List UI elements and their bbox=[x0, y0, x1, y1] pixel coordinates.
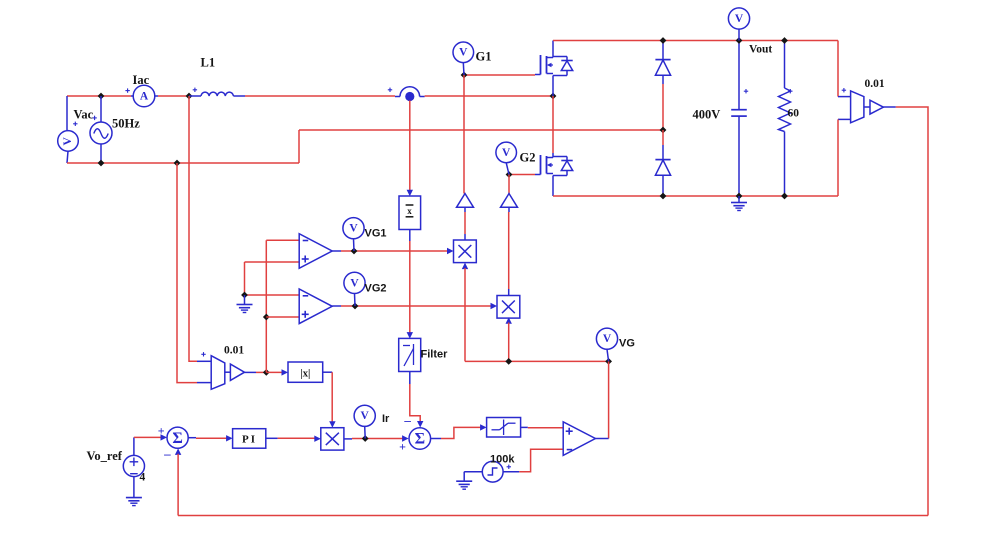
wire right rail to sensor top bbox=[837, 41, 839, 97]
arrow into M1 bottom bbox=[462, 263, 468, 270]
wire G2 gate node to mosfet gate bbox=[509, 174, 535, 176]
svg-text:V: V bbox=[459, 47, 468, 59]
label 50Hz bbox=[112, 117, 140, 131]
wire current sensor to switch node bbox=[425, 95, 553, 97]
voltmeter G1 bbox=[453, 42, 474, 63]
svg-text:0.01: 0.01 bbox=[224, 345, 244, 357]
polarity mark sensor VSEN1 bbox=[201, 352, 205, 356]
mosfet Q2 bbox=[535, 155, 573, 176]
node switch junction bbox=[550, 93, 557, 100]
label Vac bbox=[74, 108, 94, 122]
wire divider to filter bbox=[409, 241, 411, 333]
svg-text:0.01: 0.01 bbox=[865, 78, 885, 90]
wire M3 to summer2 bbox=[352, 438, 403, 440]
on-off controller T2 bbox=[501, 194, 518, 208]
wire return rail bbox=[299, 129, 663, 131]
svg-text:V: V bbox=[361, 410, 370, 422]
svg-text:VG1: VG1 bbox=[365, 228, 387, 240]
wire abs to M3 top bbox=[331, 372, 333, 421]
wire G1 vertical to controller bbox=[463, 75, 465, 194]
svg-text:PI: PI bbox=[242, 434, 257, 446]
label VG1 bbox=[365, 228, 387, 240]
wire M1 bottom to VG node bbox=[464, 268, 466, 361]
wire U2 output to multiplier bbox=[341, 305, 491, 307]
wire T1 to multiplier M1 bbox=[464, 207, 466, 240]
ac source 50Hz lead bottom bbox=[100, 144, 102, 163]
svg-text:A: A bbox=[140, 91, 149, 103]
ground opamp reference bbox=[237, 295, 253, 313]
voltmeter Vout stub bbox=[738, 29, 740, 40]
filter output lead bbox=[409, 372, 411, 385]
ground Vo_ref bbox=[126, 477, 142, 506]
svg-text:Filter: Filter bbox=[421, 349, 449, 361]
svg-text:50Hz: 50Hz bbox=[112, 117, 140, 131]
wire line sense B vertical bbox=[177, 163, 197, 383]
node opamp2 plus tap bbox=[263, 314, 270, 321]
label 0.01 output sensor bbox=[865, 78, 885, 90]
wire feedback riser bbox=[177, 454, 179, 516]
diode D2 bottom lead bbox=[662, 175, 664, 196]
arrow into summer1 left bbox=[161, 434, 168, 440]
diode leg top lead bbox=[662, 41, 664, 60]
wire bottom rail of source loop bbox=[67, 162, 299, 164]
svg-text:Σ: Σ bbox=[172, 430, 182, 447]
node junction return tap bbox=[174, 160, 181, 167]
wire line signal riser bbox=[265, 240, 267, 372]
polarity mark ammeter bbox=[125, 88, 129, 92]
wire diode midpoint upper bbox=[662, 84, 664, 130]
ammeter Iac lead left bbox=[131, 95, 134, 97]
voltage sensor VSEN1 bbox=[211, 356, 244, 390]
arrow into filter bbox=[407, 332, 413, 339]
label Filter bbox=[421, 349, 449, 361]
voltmeter VG2 bbox=[344, 272, 365, 293]
svg-text:VG: VG bbox=[619, 338, 635, 350]
arrow into abs bbox=[282, 369, 289, 375]
svg-text:Σ: Σ bbox=[415, 431, 425, 448]
wire G2 vertical to controller bbox=[508, 175, 510, 194]
svg-text:VG2: VG2 bbox=[365, 283, 387, 295]
node VG junction bbox=[605, 358, 612, 365]
voltmeter G1 stub bbox=[462, 63, 465, 75]
op-amp U1 output lead bbox=[332, 250, 341, 252]
label VG bbox=[619, 338, 635, 350]
node junction source bottom bbox=[98, 160, 105, 167]
divider block 1/x bbox=[399, 196, 421, 230]
svg-text:V: V bbox=[62, 136, 74, 145]
voltmeter VG bbox=[596, 328, 617, 349]
node Ir junction bbox=[362, 435, 369, 442]
svg-text:G1: G1 bbox=[476, 50, 492, 64]
resistor R1 lead top bbox=[784, 41, 786, 89]
polarity mark current sensor bbox=[388, 88, 392, 92]
wire to opamp2 plus bbox=[266, 316, 299, 318]
voltmeter Ir stub bbox=[364, 426, 367, 438]
capacitor C1 lead bottom bbox=[738, 116, 740, 196]
svg-text:V: V bbox=[735, 13, 744, 25]
multiplier M3 bbox=[321, 428, 344, 450]
arrow into M3 top bbox=[329, 421, 335, 428]
mosfet Q1 source lead bbox=[552, 76, 554, 97]
wire diode midpoint lower bbox=[662, 130, 664, 145]
voltage sensor VSEN2 lead top bbox=[838, 96, 851, 98]
arrow into summer1 bottom bbox=[175, 448, 181, 455]
node resistor bottom junction bbox=[781, 193, 788, 200]
svg-text:V: V bbox=[350, 277, 359, 289]
arrow into summer2 top bbox=[417, 421, 423, 428]
voltmeter Ir bbox=[354, 405, 375, 426]
multiplier M1 bbox=[454, 240, 477, 263]
ammeter Iac lead right bbox=[155, 95, 158, 97]
node cap bottom junction bbox=[736, 193, 743, 200]
svg-text:Ir: Ir bbox=[382, 413, 390, 425]
voltage sensor VSEN1 lead bottom bbox=[197, 382, 211, 384]
comparator U3 bbox=[563, 422, 595, 456]
svg-text:V: V bbox=[502, 147, 511, 159]
voltmeter Vac lead top bbox=[66, 96, 68, 131]
voltage sensor VSEN1 lead top bbox=[197, 360, 211, 362]
svg-text:V: V bbox=[603, 333, 612, 345]
wire to opamp1 plus bbox=[245, 261, 300, 263]
label 400V bbox=[693, 108, 721, 122]
op-amp U1 bbox=[299, 234, 332, 269]
ac source 50Hz bbox=[90, 122, 112, 144]
diode D1 bbox=[655, 60, 670, 76]
wire 100k to comparator minus bbox=[519, 449, 563, 471]
dc source Vo_ref lead top bbox=[133, 437, 135, 455]
node VG-M2 junction bbox=[505, 358, 512, 365]
node diode midpoint bbox=[660, 127, 667, 134]
wire feedback bottom bbox=[178, 515, 928, 517]
summer S2 plus sign bbox=[399, 439, 406, 453]
svg-text:+: + bbox=[399, 439, 406, 453]
wire VG node horizontal bbox=[465, 360, 609, 362]
M3 output lead bbox=[344, 438, 352, 440]
wire ammeter to inductor bbox=[158, 95, 189, 97]
wire bottom dc rail bbox=[553, 195, 838, 197]
summer S2 output lead bbox=[431, 438, 441, 440]
polarity mark capacitor bbox=[744, 89, 748, 93]
node line signal junction bbox=[263, 369, 270, 376]
svg-text:4: 4 bbox=[140, 472, 146, 484]
wire T2 to multiplier M2 bbox=[508, 207, 510, 295]
voltmeter VG1 stub bbox=[353, 239, 356, 251]
square source lead left bbox=[464, 471, 482, 473]
wire ground riser opamps bbox=[244, 262, 246, 295]
svg-text:–: – bbox=[163, 446, 171, 461]
node VG1 junction bbox=[351, 248, 358, 255]
node diode leg bottom bbox=[660, 193, 667, 200]
voltage sensor VSEN1 output lead bbox=[245, 371, 257, 373]
arrow into M2 left bbox=[491, 303, 498, 309]
PI output lead bbox=[266, 437, 278, 439]
wire node to abs input bbox=[266, 371, 283, 373]
inductor L1 bbox=[189, 92, 245, 96]
svg-text:G2: G2 bbox=[520, 151, 536, 165]
node resistor top junction bbox=[781, 37, 788, 44]
limiter output lead bbox=[521, 426, 528, 428]
polarity mark sensor VSEN2 bbox=[842, 88, 846, 92]
voltmeter VG stub bbox=[607, 349, 609, 361]
comparator U3 output lead bbox=[595, 438, 608, 440]
voltmeter G2 stub bbox=[506, 163, 509, 175]
wire return riser bbox=[298, 130, 300, 163]
divider output lead bbox=[409, 230, 411, 242]
svg-text:+: + bbox=[158, 423, 165, 437]
wire summer2 to limiter bbox=[441, 427, 481, 438]
capacitor C1 lead top bbox=[738, 41, 740, 110]
square-wave source 100k bbox=[482, 461, 503, 482]
wire line sense A vertical bbox=[189, 96, 197, 361]
wire sensor1 output to node bbox=[256, 371, 266, 373]
svg-text:–: – bbox=[403, 412, 411, 427]
wire current sensor down bbox=[409, 101, 411, 191]
label L1 bbox=[201, 56, 216, 70]
wire filter to summer2 bbox=[410, 384, 420, 422]
wire sensor output to right edge bbox=[896, 107, 928, 516]
wire G1 gate node to mosfet gate bbox=[464, 74, 535, 76]
mosfet Q1 drain lead bbox=[552, 41, 554, 58]
diode D2 top lead bbox=[662, 145, 664, 160]
limiter block bbox=[487, 418, 521, 438]
ground 100k bbox=[456, 472, 472, 490]
node diode leg top bbox=[660, 37, 667, 44]
voltmeter G2 bbox=[496, 142, 517, 163]
controller PI block bbox=[233, 429, 266, 449]
polarity mark resistor bbox=[788, 89, 792, 93]
current sensor ISEN1 bbox=[395, 87, 425, 101]
wire VG node to comparator output bbox=[608, 361, 610, 438]
absolute value block |x| bbox=[288, 362, 323, 382]
wire switch node to Q2 drain bbox=[552, 96, 554, 153]
summer S2 bbox=[409, 428, 431, 450]
svg-text:x: x bbox=[407, 206, 412, 216]
arrow into divider bbox=[407, 190, 413, 197]
wire top rail left (source to ammeter) bbox=[67, 95, 131, 97]
voltmeter VG1 bbox=[343, 218, 364, 239]
ammeter Iac bbox=[133, 85, 155, 107]
label 0.01 line sensor bbox=[224, 345, 244, 357]
svg-text:Vac: Vac bbox=[74, 108, 94, 122]
label VG2 bbox=[365, 283, 387, 295]
polarity mark Vac bbox=[73, 122, 77, 126]
label 60 bbox=[788, 108, 800, 120]
svg-text:Vout: Vout bbox=[749, 44, 772, 56]
svg-text:L1: L1 bbox=[201, 56, 216, 70]
node ground junction bbox=[241, 292, 248, 299]
summer S1 bbox=[167, 427, 188, 448]
summer S2 minus sign bbox=[403, 412, 411, 427]
voltage sensor VSEN2 output lead bbox=[883, 106, 895, 108]
node junction inductor left bbox=[186, 93, 193, 100]
capacitor C1 bbox=[731, 110, 747, 116]
wire summer1 to PI bbox=[196, 437, 227, 439]
label Ir bbox=[382, 413, 390, 425]
filter block bbox=[399, 338, 421, 371]
wire inductor to current sensor bbox=[245, 95, 395, 97]
on-off controller T1 bbox=[457, 194, 474, 208]
wire top dc rail bbox=[553, 40, 838, 42]
voltmeter Vout bbox=[728, 8, 749, 29]
svg-text:Vo_ref: Vo_ref bbox=[87, 449, 123, 463]
ground output bbox=[731, 196, 747, 211]
voltmeter Vac lead bottom bbox=[67, 151, 68, 163]
svg-text:V: V bbox=[349, 223, 358, 235]
wire Vo_ref to summer1 bbox=[134, 436, 161, 438]
node junction 50Hz top bbox=[98, 93, 105, 100]
resistor R1 60ohm bbox=[779, 88, 791, 132]
summer S1 plus sign bbox=[158, 423, 165, 437]
node VG2 junction bbox=[352, 303, 359, 310]
polarity mark 100k bbox=[507, 465, 511, 469]
node G1 junction bbox=[461, 72, 468, 79]
summer S1 output lead bbox=[188, 437, 196, 439]
wire U1 output to multiplier bbox=[341, 250, 448, 252]
label Iac bbox=[133, 73, 150, 87]
label G2 bbox=[520, 151, 536, 165]
mosfet Q2 source lead bbox=[552, 176, 554, 197]
abs output lead bbox=[323, 371, 333, 373]
label 100k bbox=[490, 454, 515, 466]
svg-text:100k: 100k bbox=[490, 454, 515, 466]
label G1 bbox=[476, 50, 492, 64]
node cap top junction bbox=[736, 37, 743, 44]
mosfet Q2 drain lead bbox=[552, 153, 554, 158]
wire to opamp2 minus bbox=[245, 294, 300, 296]
voltmeter Vac bbox=[58, 131, 79, 152]
wire PI to multiplier M3 bbox=[278, 437, 315, 439]
summer S1 minus sign bbox=[163, 446, 171, 461]
polarity mark inductor bbox=[193, 88, 197, 92]
multiplier M2 bbox=[497, 296, 520, 319]
arrow into limiter bbox=[480, 424, 487, 430]
voltage sensor VSEN2 lead bottom bbox=[838, 118, 851, 120]
svg-text:400V: 400V bbox=[693, 108, 721, 122]
arrow into M3 left bbox=[314, 436, 321, 442]
diode D1 bottom lead bbox=[662, 75, 664, 84]
label 4 bbox=[140, 472, 146, 484]
voltmeter VG2 stub bbox=[354, 294, 357, 307]
arrow into M2 bottom bbox=[506, 317, 512, 324]
diode D2 bbox=[655, 160, 670, 176]
arrow into M1 left bbox=[447, 248, 454, 254]
node G2 junction bbox=[506, 171, 513, 178]
arrow into PI bbox=[226, 435, 233, 441]
voltage sensor VSEN2 bbox=[851, 91, 884, 123]
resistor R1 lead bottom bbox=[784, 132, 786, 197]
label Vout bbox=[749, 44, 772, 56]
dc source Vo_ref bbox=[123, 455, 144, 476]
wire sensor bottom to bottom rail bbox=[837, 119, 839, 196]
mosfet Q1 bbox=[535, 55, 573, 76]
polarity mark 50Hz bbox=[92, 116, 96, 120]
wire limiter to comparator plus bbox=[528, 427, 563, 429]
label Vo_ref bbox=[87, 449, 123, 463]
square source lead right bbox=[503, 471, 519, 473]
svg-text:60: 60 bbox=[788, 108, 800, 120]
svg-text:Iac: Iac bbox=[133, 73, 150, 87]
op-amp U2 bbox=[299, 289, 332, 324]
ac source 50Hz lead top bbox=[100, 96, 102, 122]
svg-text:|x|: |x| bbox=[300, 369, 310, 380]
wire M2 bottom to VG node bbox=[508, 323, 510, 362]
arrow into summer2 left bbox=[402, 435, 409, 441]
wire to opamp1 minus bbox=[266, 239, 299, 241]
op-amp U2 output lead bbox=[332, 305, 341, 307]
